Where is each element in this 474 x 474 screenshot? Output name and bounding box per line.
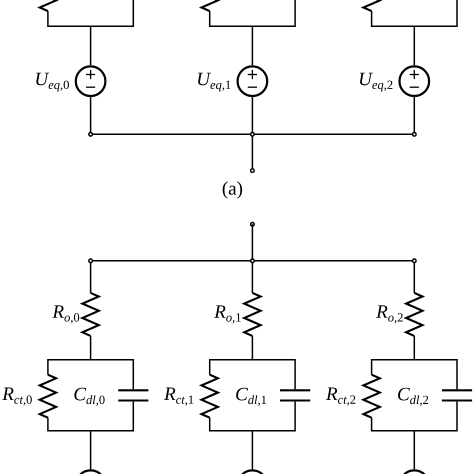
wire	[90, 336, 92, 360]
wire (parallel RC box outline, branch 2)	[372, 360, 457, 431]
label (a) caption	[223, 181, 242, 198]
label Rct,1	[164, 388, 193, 406]
node (open circle, right end of bottom bus)	[413, 259, 417, 263]
wire	[90, 261, 92, 293]
node (open circle, left end of top bus)	[89, 133, 93, 137]
resistor Ro,2	[406, 293, 422, 336]
label Ro,1	[214, 305, 241, 323]
resistor Rct,1 (cut off at top edge)	[202, 0, 218, 11]
wire (cut-off RC box outline, branch 2)	[372, 0, 457, 26]
node (input terminal of sub-figure b)	[251, 223, 255, 227]
wire	[251, 261, 253, 293]
label Cdl,2	[398, 388, 428, 406]
wire	[90, 97, 92, 134]
wire (cut-off RC box outline, branch 1)	[210, 0, 295, 26]
wire	[413, 97, 415, 134]
voltage source Ueq,1	[238, 66, 268, 96]
wire	[413, 261, 415, 293]
capacitor Cdl,1	[280, 390, 310, 400]
node (open circle, left end of bottom bus)	[89, 259, 93, 263]
capacitor Cdl,2	[442, 390, 472, 400]
wire	[90, 431, 92, 470]
node (junction, centre of bottom bus)	[251, 259, 255, 263]
voltage source Ueq,0	[76, 66, 106, 96]
label Ueq,2	[360, 73, 392, 92]
label Ueq,1	[198, 73, 230, 92]
label Ro,0	[52, 305, 79, 323]
resistor Rct,2	[363, 375, 379, 418]
wire	[251, 431, 253, 470]
wire	[413, 431, 415, 470]
resistor Ro,0	[82, 293, 98, 336]
voltage source (cut off at bottom edge), branch 0	[76, 470, 106, 474]
voltage source (cut off at bottom edge), branch 2	[400, 470, 430, 474]
node (output terminal of sub-figure a)	[251, 169, 255, 173]
resistor Rct,0 (cut off at top edge)	[40, 0, 56, 11]
capacitor Cdl,0	[118, 390, 148, 400]
wire	[413, 26, 415, 65]
voltage source (cut off at bottom edge), branch 1	[238, 470, 268, 474]
wire	[251, 26, 253, 65]
wire (parallel RC box outline, branch 0)	[48, 360, 133, 431]
label Ueq,0	[36, 73, 69, 92]
label Cdl,1	[236, 388, 266, 406]
wire	[90, 26, 92, 65]
resistor Rct,2 (cut off at top edge)	[363, 0, 379, 11]
node (open circle, right end of top bus)	[413, 133, 417, 137]
node (junction, centre of top bus)	[251, 133, 255, 137]
wire (terminal stub down to bottom bus)	[251, 224, 253, 260]
wire (stub to terminal)	[251, 134, 253, 170]
wire (cut-off RC box outline, branch 0)	[48, 0, 133, 26]
wire (bottom bus)	[91, 260, 415, 262]
resistor Rct,0	[40, 375, 56, 418]
label Ro,2	[376, 305, 403, 323]
wire	[251, 97, 253, 134]
resistor Rct,1	[202, 375, 218, 418]
wire (parallel RC box outline, branch 1)	[210, 360, 295, 431]
wire	[413, 336, 415, 360]
wire	[251, 336, 253, 360]
label Rct,0	[2, 388, 32, 406]
label Cdl,0	[74, 388, 104, 406]
wire (top bus)	[91, 133, 415, 135]
voltage source Ueq,2	[400, 66, 430, 96]
label Rct,2	[326, 388, 355, 406]
resistor Ro,1	[244, 293, 260, 336]
